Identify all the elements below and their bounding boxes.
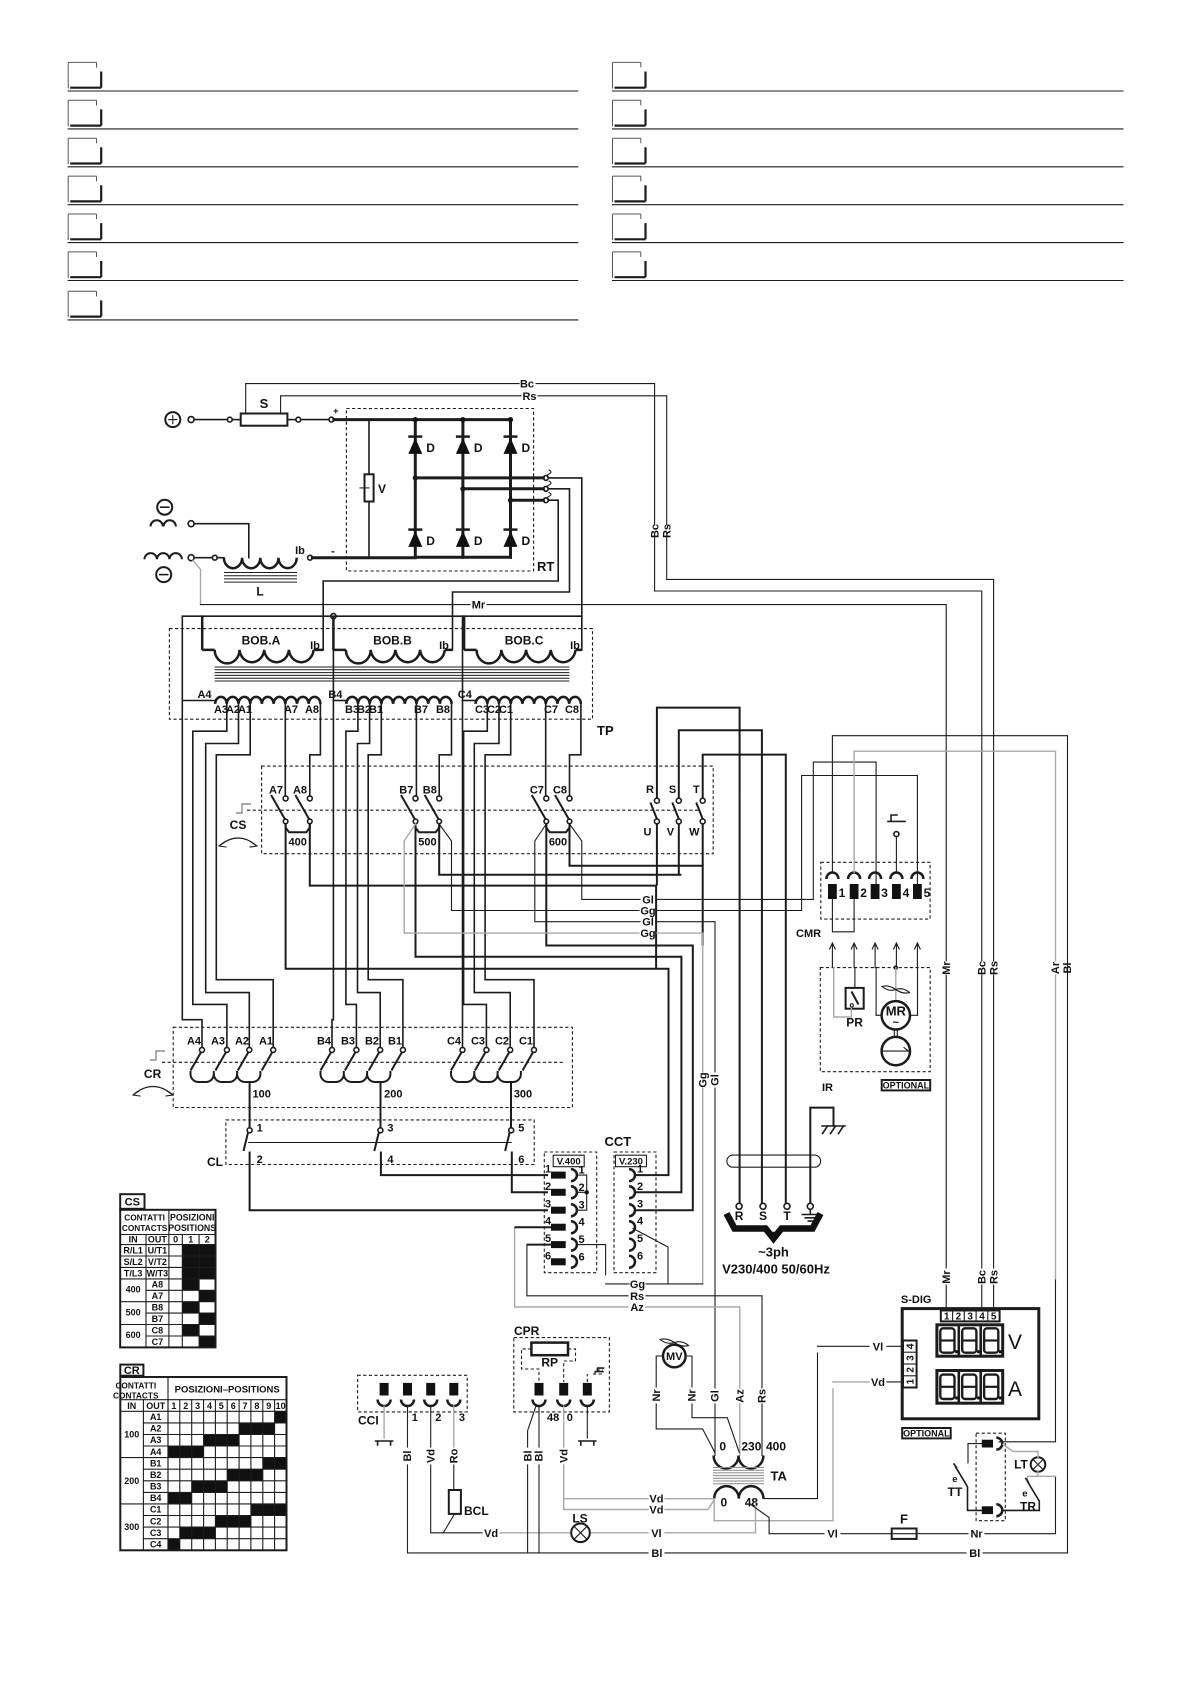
svg-text:POSITIONS: POSITIONS bbox=[168, 1223, 216, 1233]
svg-text:Rs: Rs bbox=[757, 1389, 769, 1403]
svg-text:Mr: Mr bbox=[941, 961, 953, 975]
CCI pin4 Ro to BCL bbox=[449, 1406, 461, 1490]
wire W output drop bbox=[702, 824, 704, 866]
svg-text:BCL: BCL bbox=[464, 1504, 489, 1518]
V.230 coil 5 bbox=[629, 1233, 643, 1251]
tap wire B4 bbox=[332, 619, 333, 1048]
svg-text:D: D bbox=[426, 534, 435, 548]
svg-text:1: 1 bbox=[944, 1312, 950, 1323]
terminal - (negative output A) bbox=[151, 500, 176, 527]
svg-text:C4: C4 bbox=[150, 1540, 162, 1550]
svg-text:B2: B2 bbox=[365, 1036, 379, 1048]
svg-text:0: 0 bbox=[719, 1440, 726, 1454]
svg-text:RP: RP bbox=[541, 1356, 558, 1370]
tap wire C1 bbox=[485, 704, 534, 1048]
terminal + (positive output) bbox=[165, 412, 180, 427]
wire CMR pin2 to Ar (grey) bbox=[854, 751, 1055, 961]
svg-text:Bl: Bl bbox=[651, 1548, 662, 1560]
svg-text:Bc: Bc bbox=[650, 524, 662, 538]
plug contact R bbox=[735, 1203, 744, 1223]
tap wire A2 bbox=[206, 704, 250, 1048]
tap wire B2 bbox=[358, 704, 381, 1048]
svg-text:A8: A8 bbox=[305, 704, 319, 716]
S-DIG top connector 1-5 bbox=[941, 1311, 1000, 1323]
svg-text:A1: A1 bbox=[150, 1412, 162, 1422]
svg-text:100: 100 bbox=[124, 1430, 139, 1440]
svg-text:1: 1 bbox=[412, 1412, 418, 1424]
CMR pins 1-2 bridge bbox=[832, 899, 854, 932]
svg-text:B3: B3 bbox=[341, 1036, 355, 1048]
TP dashed box bbox=[169, 629, 614, 738]
svg-text:C4: C4 bbox=[458, 689, 473, 701]
wire Gg to CMR pin 5 bbox=[439, 776, 917, 918]
wire pin to LT bbox=[1003, 1445, 1038, 1458]
PR grey loop bbox=[834, 968, 852, 1017]
svg-text:200: 200 bbox=[124, 1476, 139, 1486]
svg-text:C3: C3 bbox=[471, 1036, 485, 1048]
CPR ground glyph top right bbox=[587, 1368, 603, 1382]
svg-text:C2: C2 bbox=[150, 1516, 162, 1526]
svg-text:4: 4 bbox=[207, 1401, 212, 1411]
IR feed wires bbox=[832, 963, 917, 968]
svg-text:1: 1 bbox=[257, 1123, 263, 1135]
phase switch T-W bbox=[689, 784, 705, 839]
svg-text:4: 4 bbox=[579, 1217, 586, 1229]
svg-text:3: 3 bbox=[387, 1123, 393, 1135]
CL dashed box bbox=[207, 1120, 534, 1169]
diode D top col1 bbox=[408, 437, 435, 455]
svg-text:Vd: Vd bbox=[649, 1505, 663, 1517]
primary top bus bbox=[202, 615, 582, 617]
lamp LS bbox=[571, 1512, 590, 1543]
svg-text:10: 10 bbox=[276, 1401, 286, 1411]
svg-text:300: 300 bbox=[514, 1089, 532, 1101]
svg-text:3: 3 bbox=[195, 1401, 200, 1411]
svg-text:BOB.A: BOB.A bbox=[242, 634, 281, 648]
svg-text:L: L bbox=[256, 585, 263, 599]
svg-text:9: 9 bbox=[266, 1401, 271, 1411]
table CR bbox=[113, 1377, 286, 1550]
svg-text:3: 3 bbox=[637, 1199, 643, 1211]
V.230 coil 3 bbox=[629, 1199, 643, 1217]
wire Gg to lower Gg bus bbox=[404, 824, 709, 1284]
svg-text:A8: A8 bbox=[152, 1280, 164, 1290]
svg-text:4: 4 bbox=[903, 886, 910, 900]
resistor BCL bbox=[443, 1490, 488, 1533]
CPR pin3 to ground bbox=[579, 1406, 596, 1445]
wire R up and over to plug bbox=[657, 708, 740, 1204]
V.230 coil 4 diagonal to Gg bbox=[633, 1229, 668, 1284]
svg-text:6: 6 bbox=[518, 1154, 524, 1166]
CL linkage line bbox=[249, 1142, 512, 1144]
legend row R6 bbox=[613, 252, 1124, 281]
resistor RP bbox=[531, 1343, 568, 1370]
svg-text:+: + bbox=[333, 406, 339, 417]
CPR dashed box bbox=[514, 1338, 610, 1412]
svg-text:CPR: CPR bbox=[514, 1324, 540, 1338]
svg-text:B2: B2 bbox=[150, 1470, 162, 1480]
tap wire B1 bbox=[368, 704, 403, 1048]
svg-text:Bl: Bl bbox=[534, 1451, 546, 1462]
wire Bc sense from shunt bbox=[246, 379, 655, 525]
wire Vl into S-DIG bbox=[818, 1341, 903, 1353]
svg-text:MV: MV bbox=[666, 1351, 683, 1363]
svg-text:B7: B7 bbox=[399, 785, 413, 797]
svg-text:S/L2: S/L2 bbox=[124, 1257, 143, 1267]
CMR pin 2 bbox=[848, 873, 867, 901]
svg-text:Vd: Vd bbox=[425, 1449, 437, 1463]
svg-text:2: 2 bbox=[956, 1312, 962, 1323]
RT bottom bus bbox=[415, 556, 510, 559]
tap wire B7 bbox=[415, 704, 418, 796]
wire A8 output bbox=[310, 824, 656, 969]
CS dashed box bbox=[262, 766, 714, 854]
wire U output drop bbox=[656, 824, 658, 886]
diode D top col2 bbox=[456, 437, 483, 455]
svg-text:CONTACTS: CONTACTS bbox=[122, 1223, 168, 1233]
svg-text:0: 0 bbox=[567, 1412, 573, 1424]
svg-text:Gg: Gg bbox=[640, 906, 655, 918]
CMR dashed box bbox=[796, 862, 930, 940]
svg-text:Ar: Ar bbox=[1050, 961, 1062, 974]
svg-text:B4: B4 bbox=[150, 1493, 162, 1503]
wire Vl TA-48 to S-DIG bbox=[763, 1353, 817, 1499]
V.400 coils 1-3 bridge bbox=[578, 1175, 589, 1210]
svg-text:POSIZIONI: POSIZIONI bbox=[170, 1213, 214, 1223]
svg-text:Mr: Mr bbox=[472, 600, 486, 612]
CPR pin 1 (48) bbox=[533, 1383, 560, 1424]
TA primary winding bbox=[714, 1440, 787, 1469]
wire Vl black TA-48 to fuse bbox=[750, 1504, 892, 1541]
legend row L2 bbox=[68, 100, 578, 129]
svg-text:Gl: Gl bbox=[710, 1390, 722, 1402]
svg-text:A3: A3 bbox=[211, 1036, 225, 1048]
svg-text:7: 7 bbox=[242, 1401, 247, 1411]
svg-text:Gl: Gl bbox=[710, 1074, 722, 1086]
svg-text:V230/400 50/60Hz: V230/400 50/60Hz bbox=[722, 1262, 830, 1277]
PR thermal switch bbox=[846, 968, 864, 1030]
svg-text:Bl: Bl bbox=[522, 1451, 534, 1462]
svg-text:100: 100 bbox=[253, 1089, 271, 1101]
legend row L5 bbox=[68, 214, 578, 243]
svg-text:OPTIONAL: OPTIONAL bbox=[883, 1081, 930, 1091]
svg-text:500: 500 bbox=[126, 1307, 141, 1317]
svg-text:1: 1 bbox=[905, 1378, 916, 1384]
tap wire B8 bbox=[439, 704, 451, 796]
svg-text:TP: TP bbox=[597, 723, 614, 738]
wire Mr origin (grey drop from - terminal) bbox=[193, 560, 201, 604]
svg-text:1: 1 bbox=[545, 1164, 551, 1176]
svg-text:CONTATTI: CONTATTI bbox=[124, 1213, 165, 1223]
wire Bl bottom bbox=[408, 1548, 1068, 1560]
svg-text:4: 4 bbox=[545, 1216, 552, 1228]
svg-text:2: 2 bbox=[435, 1412, 441, 1424]
svg-text:A7: A7 bbox=[269, 785, 283, 797]
svg-text:6: 6 bbox=[637, 1250, 643, 1262]
primary winding BOB.A bbox=[202, 616, 323, 663]
svg-text:Az: Az bbox=[734, 1389, 746, 1403]
svg-text:600: 600 bbox=[549, 837, 567, 849]
svg-text:~: ~ bbox=[893, 1017, 900, 1029]
motor MR bbox=[876, 968, 917, 1030]
svg-text:A: A bbox=[1008, 1378, 1022, 1401]
svg-text:3: 3 bbox=[905, 1355, 916, 1361]
svg-text:BOB.C: BOB.C bbox=[505, 634, 544, 648]
svg-text:A2: A2 bbox=[150, 1424, 162, 1434]
svg-text:RT: RT bbox=[537, 559, 554, 574]
svg-text:5: 5 bbox=[991, 1312, 997, 1323]
CR group 300 contacts bbox=[447, 1036, 537, 1128]
svg-text:Gg: Gg bbox=[630, 1279, 645, 1291]
wire + terminal to shunt S bbox=[194, 419, 227, 421]
svg-text:Ib: Ib bbox=[310, 640, 320, 652]
svg-text:CMR: CMR bbox=[796, 928, 821, 940]
legend row L7 bbox=[68, 291, 578, 320]
cable capsule bbox=[727, 1155, 821, 1167]
earth wire to chassis ground bbox=[810, 1108, 833, 1204]
svg-text:D: D bbox=[474, 441, 483, 455]
svg-text:5: 5 bbox=[518, 1123, 524, 1135]
svg-text:2: 2 bbox=[183, 1401, 188, 1411]
wire V output drop bbox=[678, 824, 680, 875]
CPR pin 2 (0) bbox=[557, 1383, 573, 1424]
wire LT node to Nr vertical bbox=[1038, 1475, 1056, 1477]
wire T up and over to plug bbox=[703, 755, 786, 1204]
label Ib / wire L to rectifier bbox=[295, 545, 415, 560]
CCI pin3 Vd down bbox=[425, 1406, 482, 1533]
CCI pin2 Bl down bbox=[402, 1406, 414, 1553]
svg-text:Ib: Ib bbox=[439, 640, 449, 652]
wire Rs sense from shunt bbox=[281, 391, 667, 525]
svg-text:T: T bbox=[783, 1209, 791, 1223]
S-DIG V display bbox=[937, 1325, 1022, 1356]
V.230 coil 1 bbox=[629, 1164, 643, 1182]
svg-text:CL: CL bbox=[207, 1155, 223, 1169]
svg-text:C4: C4 bbox=[447, 1036, 462, 1048]
svg-text:IN: IN bbox=[129, 1235, 138, 1245]
svg-text:IN: IN bbox=[127, 1401, 136, 1411]
wire MV left Nr bbox=[651, 1356, 715, 1453]
svg-text:Bc: Bc bbox=[977, 1270, 989, 1284]
wire Rs bottom to TA 400 bbox=[527, 1245, 769, 1456]
svg-text:CR: CR bbox=[124, 1365, 140, 1377]
CCI pin1 to ground bbox=[376, 1406, 393, 1445]
svg-text:B1: B1 bbox=[388, 1036, 402, 1048]
svg-text:Gg: Gg bbox=[640, 928, 655, 940]
RT top bus bbox=[415, 418, 510, 421]
diode D bottom col3 bbox=[504, 530, 531, 548]
tap wire C4 bbox=[463, 616, 465, 1047]
svg-text:B1: B1 bbox=[150, 1458, 162, 1468]
wire Vd horizontals to TA-0 bbox=[564, 1494, 715, 1506]
legend row L1 bbox=[68, 62, 578, 91]
V.400 pin 5 bbox=[545, 1233, 585, 1251]
diode D bottom col2 bbox=[456, 530, 483, 548]
legend row R4 bbox=[613, 176, 1124, 205]
wires Mr Bc Rs continue to S-DIG bbox=[945, 975, 947, 1309]
table CS title box bbox=[120, 1194, 144, 1209]
svg-text:Gl: Gl bbox=[642, 917, 654, 929]
svg-text:Nr: Nr bbox=[687, 1389, 699, 1402]
svg-text:6: 6 bbox=[545, 1250, 551, 1262]
svg-text:A2: A2 bbox=[235, 1036, 249, 1048]
capacitor gauge below MR bbox=[882, 1030, 910, 1066]
wire CMR pin1 to Bl bbox=[832, 736, 1067, 1553]
switch TR bbox=[1003, 1472, 1039, 1514]
svg-text:BOB.B: BOB.B bbox=[373, 634, 412, 648]
RT column 1 bbox=[414, 420, 417, 558]
lamp LT bbox=[1014, 1457, 1045, 1472]
wire Vl grey from LS to TA secondary mid bbox=[590, 1503, 756, 1540]
tap wire C2 bbox=[474, 704, 510, 1048]
svg-text:2: 2 bbox=[545, 1181, 551, 1193]
svg-text:C7: C7 bbox=[530, 785, 544, 797]
svg-text:R: R bbox=[646, 784, 654, 796]
CCI pin 4 bbox=[447, 1383, 465, 1424]
secondary winding B bbox=[328, 689, 451, 716]
svg-text:5: 5 bbox=[924, 886, 931, 900]
svg-text:2: 2 bbox=[257, 1154, 263, 1166]
wire - terminal A to bottom bus bbox=[194, 524, 249, 558]
svg-text:A4: A4 bbox=[197, 689, 212, 701]
svg-text:Bc: Bc bbox=[520, 379, 534, 391]
svg-text:U: U bbox=[644, 827, 652, 839]
phase switch S-V bbox=[667, 784, 682, 839]
svg-text:D: D bbox=[522, 441, 531, 455]
svg-text:600: 600 bbox=[126, 1330, 141, 1340]
shunt S bbox=[232, 396, 287, 426]
IR dashed box bbox=[820, 968, 930, 1094]
svg-text:F: F bbox=[900, 1512, 908, 1527]
svg-text:48: 48 bbox=[547, 1412, 559, 1424]
TT top pin bbox=[982, 1438, 1003, 1450]
svg-text:Nr: Nr bbox=[970, 1529, 983, 1541]
tap wire C7 bbox=[545, 704, 547, 796]
svg-text:400: 400 bbox=[126, 1285, 141, 1295]
legend row R3 bbox=[613, 138, 1124, 167]
svg-text:Bc: Bc bbox=[977, 961, 989, 975]
tap wire B3 bbox=[346, 704, 358, 1048]
svg-text:Vd: Vd bbox=[558, 1449, 570, 1463]
svg-text:B4: B4 bbox=[317, 1036, 332, 1048]
svg-text:TA: TA bbox=[771, 1469, 788, 1484]
svg-text:C8: C8 bbox=[553, 785, 567, 797]
switch 500 contacts bbox=[399, 785, 441, 849]
S-DIG left connector 1-4 bbox=[903, 1341, 917, 1388]
svg-text:A8: A8 bbox=[293, 785, 307, 797]
svg-text:W/T3: W/T3 bbox=[147, 1268, 169, 1278]
V.400 pin 3 bbox=[545, 1199, 585, 1217]
V.400 pin 1 bbox=[545, 1164, 585, 1182]
svg-text:CCI: CCI bbox=[358, 1414, 379, 1428]
RT AC output 2 bbox=[453, 481, 570, 616]
wire Vd to LS bbox=[484, 1528, 571, 1540]
svg-text:B4: B4 bbox=[328, 689, 343, 701]
CPR pin1 Bl wires bbox=[522, 1406, 536, 1553]
S-DIG A display bbox=[937, 1371, 1022, 1404]
legend row L3 bbox=[68, 138, 578, 167]
CR linkage dashed line bbox=[162, 1061, 565, 1063]
svg-text:6: 6 bbox=[579, 1251, 585, 1263]
CPR pin 3 bbox=[581, 1383, 594, 1406]
svg-text:Rs: Rs bbox=[662, 524, 674, 538]
V.230 coil 6 bbox=[629, 1250, 643, 1268]
svg-text:Bl: Bl bbox=[402, 1451, 414, 1462]
svg-text:A3: A3 bbox=[150, 1435, 162, 1445]
CR dashed box bbox=[173, 1027, 572, 1107]
fan MV bbox=[660, 1339, 689, 1367]
svg-text:C8: C8 bbox=[152, 1325, 164, 1335]
CR mech step glyph bbox=[150, 1051, 165, 1060]
svg-text:D: D bbox=[522, 534, 531, 548]
svg-text:0: 0 bbox=[173, 1235, 178, 1245]
svg-text:IR: IR bbox=[822, 1082, 833, 1094]
legend row R5 bbox=[613, 214, 1124, 243]
svg-text:e: e bbox=[1022, 1489, 1027, 1500]
svg-text:400: 400 bbox=[289, 837, 307, 849]
svg-text:5: 5 bbox=[637, 1233, 643, 1245]
CR rotate arrows bbox=[133, 1087, 173, 1097]
fuse F bbox=[892, 1512, 917, 1539]
tap wire A1 bbox=[216, 704, 273, 1048]
primary winding BOB.C bbox=[464, 616, 582, 663]
svg-text:Ro: Ro bbox=[449, 1448, 461, 1463]
svg-text:3: 3 bbox=[967, 1312, 973, 1323]
V.230 label box bbox=[616, 1155, 647, 1167]
svg-text:B8: B8 bbox=[152, 1303, 164, 1313]
wire A7 output to V.230 coil 1 bbox=[286, 824, 669, 1175]
wire Gl to CMR pin 3 bbox=[570, 762, 877, 906]
RT column 2 bbox=[461, 420, 464, 558]
V.230 coil 2 bbox=[629, 1181, 643, 1199]
S-DIG box bbox=[902, 1309, 1039, 1419]
CCI pin 2 bbox=[401, 1383, 418, 1424]
switch 600 contacts bbox=[530, 785, 572, 849]
wire C8 output bbox=[570, 824, 703, 946]
svg-text:48: 48 bbox=[745, 1496, 759, 1510]
svg-text:Vl: Vl bbox=[651, 1528, 661, 1540]
switch TT bbox=[948, 1444, 982, 1511]
CS rotate arrows bbox=[219, 838, 257, 847]
legend row R1 bbox=[613, 62, 1124, 91]
svg-text:C7: C7 bbox=[152, 1337, 164, 1347]
CL switch 1-2 bbox=[244, 1123, 549, 1211]
wire C7 output to V.230 coil 3 bbox=[546, 824, 693, 1210]
chassis ground symbol bbox=[822, 1126, 845, 1134]
V.230 coil 1-3 feeds bbox=[636, 1174, 658, 1176]
svg-text:V: V bbox=[378, 482, 386, 496]
node on top bus bbox=[331, 614, 336, 619]
svg-text:4: 4 bbox=[979, 1312, 985, 1323]
tap wire C8 bbox=[570, 704, 581, 796]
wire Mr horizontal bbox=[201, 600, 947, 961]
plug contact T bbox=[783, 1203, 791, 1223]
V.400 pin 4 bbox=[545, 1216, 586, 1234]
wire V.400 pin5 feed bbox=[527, 1244, 551, 1246]
plug contact earth bbox=[802, 1203, 818, 1221]
svg-text:3: 3 bbox=[881, 886, 888, 900]
wire MV right Nr bbox=[686, 1356, 740, 1453]
wire Nr fuse to TR bbox=[917, 1476, 1056, 1540]
svg-text:Rs: Rs bbox=[988, 1270, 1000, 1284]
3ph brace bbox=[727, 1214, 821, 1239]
svg-text:T: T bbox=[693, 784, 700, 796]
table CR title box bbox=[120, 1365, 143, 1377]
CPR pin2 Vd wire bbox=[558, 1406, 570, 1510]
svg-text:B7: B7 bbox=[152, 1314, 164, 1324]
svg-text:S: S bbox=[759, 1209, 767, 1223]
RP dashed connections bbox=[522, 1349, 576, 1382]
